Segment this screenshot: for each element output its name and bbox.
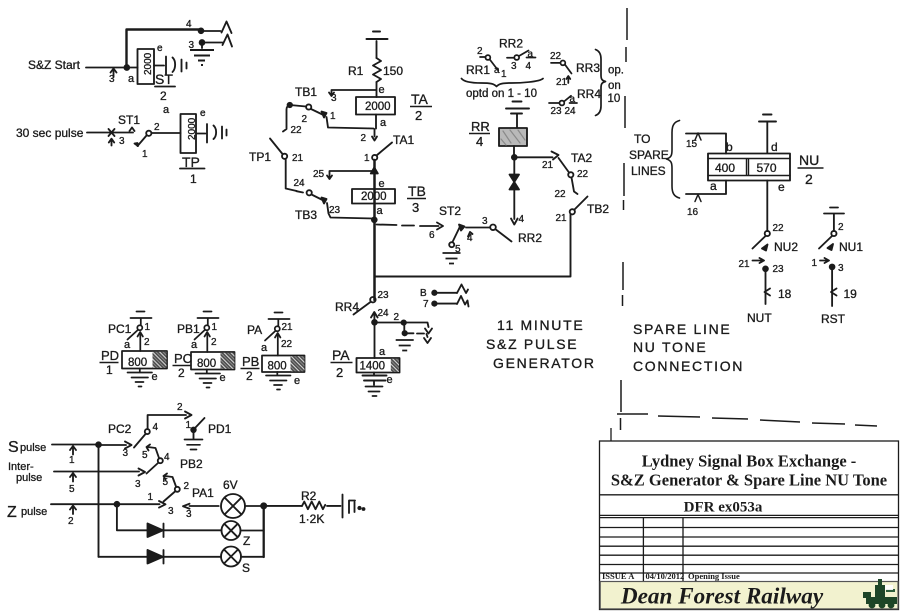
svg-text:a: a bbox=[191, 339, 198, 351]
svg-text:23: 23 bbox=[773, 264, 785, 275]
svg-text:PA1: PA1 bbox=[192, 486, 214, 500]
svg-text:RR: RR bbox=[471, 119, 490, 134]
svg-text:19: 19 bbox=[844, 287, 858, 301]
svg-text:Z: Z bbox=[243, 534, 250, 548]
svg-text:1400: 1400 bbox=[360, 361, 386, 373]
svg-text:3: 3 bbox=[168, 506, 174, 517]
svg-text:a: a bbox=[528, 49, 534, 60]
svg-text:ST: ST bbox=[155, 71, 173, 87]
svg-text:25: 25 bbox=[313, 169, 325, 180]
svg-text:a: a bbox=[377, 205, 384, 217]
svg-text:TB2: TB2 bbox=[587, 202, 609, 216]
svg-text:pulse: pulse bbox=[20, 442, 46, 454]
svg-text:RR4: RR4 bbox=[335, 300, 359, 314]
svg-text:NU2: NU2 bbox=[774, 240, 798, 254]
svg-text:4: 4 bbox=[467, 233, 473, 244]
svg-text:S&Z Start: S&Z Start bbox=[28, 58, 81, 72]
svg-text:PD: PD bbox=[101, 348, 119, 363]
svg-text:2000: 2000 bbox=[143, 52, 154, 75]
svg-text:2000: 2000 bbox=[187, 117, 198, 140]
svg-text:3: 3 bbox=[331, 93, 337, 104]
svg-text:400: 400 bbox=[715, 161, 735, 175]
svg-text:3: 3 bbox=[109, 74, 115, 85]
svg-text:RST: RST bbox=[821, 312, 846, 326]
svg-text:5: 5 bbox=[455, 244, 461, 255]
svg-text:2: 2 bbox=[154, 122, 160, 133]
svg-text:a: a bbox=[494, 65, 500, 76]
svg-text:30 sec pulse: 30 sec pulse bbox=[16, 126, 84, 140]
svg-text:GENERATOR: GENERATOR bbox=[493, 355, 596, 371]
svg-text:23: 23 bbox=[551, 106, 563, 117]
svg-text:RR3: RR3 bbox=[576, 61, 600, 75]
svg-text:2: 2 bbox=[184, 481, 190, 492]
svg-text:e: e bbox=[157, 43, 163, 54]
svg-text:150: 150 bbox=[383, 64, 403, 78]
svg-text:2: 2 bbox=[336, 365, 343, 380]
svg-text:Z: Z bbox=[7, 504, 17, 521]
svg-text:pulse: pulse bbox=[21, 506, 47, 518]
svg-text:2: 2 bbox=[838, 222, 844, 233]
svg-text:3: 3 bbox=[482, 216, 488, 227]
svg-text:e: e bbox=[379, 178, 385, 190]
svg-text:22: 22 bbox=[291, 125, 303, 136]
svg-text:22: 22 bbox=[550, 51, 562, 62]
svg-text:e: e bbox=[152, 371, 158, 383]
svg-text:RR2: RR2 bbox=[518, 231, 542, 245]
svg-text:1: 1 bbox=[501, 69, 507, 80]
svg-text:TB1: TB1 bbox=[295, 85, 317, 99]
svg-text:PD1: PD1 bbox=[208, 422, 232, 436]
svg-text:1·2K: 1·2K bbox=[299, 512, 324, 526]
svg-text:22: 22 bbox=[577, 169, 589, 180]
svg-text:2: 2 bbox=[160, 89, 167, 103]
svg-text:Dean Forest Railway: Dean Forest Railway bbox=[620, 584, 824, 610]
svg-text:TP: TP bbox=[182, 154, 200, 170]
svg-text:2: 2 bbox=[394, 312, 400, 323]
svg-text:1: 1 bbox=[364, 153, 370, 164]
svg-text:TA1: TA1 bbox=[393, 133, 414, 147]
svg-text:TA: TA bbox=[411, 91, 429, 107]
svg-text:4: 4 bbox=[519, 214, 525, 225]
svg-text:3: 3 bbox=[189, 40, 195, 51]
svg-text:NU: NU bbox=[799, 152, 819, 168]
svg-text:NUT: NUT bbox=[747, 311, 772, 325]
svg-text:4: 4 bbox=[164, 452, 170, 463]
svg-text:a: a bbox=[710, 179, 717, 193]
svg-text:RR4: RR4 bbox=[577, 87, 601, 101]
svg-text:optd on 1 - 10: optd on 1 - 10 bbox=[466, 88, 537, 100]
svg-text:2: 2 bbox=[68, 516, 74, 527]
svg-text:22: 22 bbox=[773, 223, 785, 234]
svg-text:24: 24 bbox=[294, 178, 306, 189]
svg-text:TA2: TA2 bbox=[571, 151, 592, 165]
svg-text:5: 5 bbox=[163, 477, 169, 488]
svg-text:Opening Issue: Opening Issue bbox=[688, 571, 740, 581]
svg-text:SPARE: SPARE bbox=[629, 148, 669, 162]
svg-text:04/10/2012: 04/10/2012 bbox=[646, 571, 685, 581]
svg-text:16: 16 bbox=[687, 207, 699, 218]
svg-text:S: S bbox=[242, 561, 250, 575]
svg-text:ST2: ST2 bbox=[439, 204, 461, 218]
svg-text:S&Z Generator & Spare Line NU: S&Z Generator & Spare Line NU Tone bbox=[611, 471, 887, 490]
svg-text:11 MINUTE: 11 MINUTE bbox=[497, 317, 584, 333]
svg-text:a: a bbox=[261, 342, 268, 354]
svg-text:5: 5 bbox=[69, 484, 75, 495]
svg-text:4: 4 bbox=[476, 134, 483, 149]
svg-text:3: 3 bbox=[838, 263, 844, 274]
svg-text:RR1: RR1 bbox=[466, 63, 490, 77]
svg-text:PC2: PC2 bbox=[108, 422, 132, 436]
svg-text:PB1: PB1 bbox=[177, 322, 200, 336]
svg-text:2000: 2000 bbox=[365, 101, 391, 113]
svg-text:4: 4 bbox=[186, 19, 192, 30]
svg-text:2: 2 bbox=[211, 337, 217, 348]
svg-text:4: 4 bbox=[526, 61, 532, 72]
svg-text:pulse: pulse bbox=[16, 472, 42, 484]
svg-text:1: 1 bbox=[190, 172, 197, 186]
svg-text:B: B bbox=[420, 288, 427, 299]
svg-text:6V: 6V bbox=[223, 478, 238, 492]
svg-text:NU TONE: NU TONE bbox=[633, 339, 707, 355]
svg-text:ISSUE A: ISSUE A bbox=[602, 571, 635, 581]
svg-text:6: 6 bbox=[429, 230, 435, 241]
svg-text:TO: TO bbox=[634, 132, 650, 146]
svg-text:2: 2 bbox=[302, 114, 308, 125]
svg-text:S: S bbox=[8, 439, 19, 456]
svg-text:2: 2 bbox=[144, 337, 150, 348]
svg-text:e: e bbox=[220, 372, 226, 384]
svg-text:TB3: TB3 bbox=[295, 208, 317, 222]
svg-text:18: 18 bbox=[778, 287, 792, 301]
svg-text:21: 21 bbox=[282, 322, 294, 333]
svg-text:1: 1 bbox=[142, 149, 148, 160]
svg-text:S&Z PULSE: S&Z PULSE bbox=[486, 336, 578, 352]
svg-text:800: 800 bbox=[128, 357, 147, 369]
svg-text:PB: PB bbox=[242, 354, 259, 369]
svg-text:PC1: PC1 bbox=[108, 322, 132, 336]
svg-text:1: 1 bbox=[212, 322, 218, 333]
svg-text:5: 5 bbox=[142, 450, 148, 461]
svg-text:21: 21 bbox=[739, 259, 751, 270]
svg-text:2: 2 bbox=[361, 133, 367, 144]
svg-text:800: 800 bbox=[268, 361, 287, 373]
svg-text:22: 22 bbox=[555, 189, 567, 200]
svg-text:LINES: LINES bbox=[631, 164, 666, 178]
svg-text:800: 800 bbox=[197, 358, 216, 370]
svg-text:2: 2 bbox=[177, 402, 183, 413]
svg-text:1: 1 bbox=[69, 455, 75, 466]
svg-text:4: 4 bbox=[153, 422, 159, 433]
svg-text:21: 21 bbox=[542, 160, 554, 171]
svg-text:CONNECTION: CONNECTION bbox=[633, 358, 744, 374]
svg-text:24: 24 bbox=[378, 308, 390, 319]
svg-text:1: 1 bbox=[330, 111, 336, 122]
svg-text:on: on bbox=[608, 80, 621, 92]
svg-text:R2: R2 bbox=[301, 489, 317, 503]
svg-text:d: d bbox=[771, 140, 778, 154]
svg-text:2: 2 bbox=[805, 171, 813, 187]
svg-text:a: a bbox=[163, 104, 170, 116]
svg-text:NU1: NU1 bbox=[839, 240, 863, 254]
svg-text:15: 15 bbox=[686, 139, 698, 150]
svg-text:2: 2 bbox=[477, 46, 483, 57]
svg-text:e: e bbox=[778, 180, 785, 194]
svg-text:a: a bbox=[380, 117, 387, 129]
svg-text:a: a bbox=[570, 94, 576, 105]
svg-text:ST1: ST1 bbox=[118, 113, 140, 127]
svg-text:RR2: RR2 bbox=[499, 37, 523, 51]
svg-text:R1: R1 bbox=[348, 64, 364, 78]
svg-text:21: 21 bbox=[556, 77, 568, 88]
svg-text:PB2: PB2 bbox=[180, 457, 203, 471]
svg-text:7: 7 bbox=[423, 299, 429, 310]
svg-text:PC: PC bbox=[174, 351, 192, 366]
svg-text:570: 570 bbox=[757, 161, 777, 175]
svg-text:22: 22 bbox=[281, 339, 293, 350]
svg-text:e: e bbox=[379, 84, 385, 96]
svg-text:e: e bbox=[387, 374, 393, 386]
svg-text:Lydney Signal Box Exchange -: Lydney Signal Box Exchange - bbox=[642, 452, 857, 471]
svg-text:3: 3 bbox=[186, 509, 192, 520]
svg-text:SPARE LINE: SPARE LINE bbox=[633, 321, 731, 337]
svg-text:24: 24 bbox=[565, 106, 577, 117]
svg-text:1: 1 bbox=[106, 363, 113, 377]
svg-text:3: 3 bbox=[119, 136, 125, 147]
svg-text:PA: PA bbox=[332, 347, 350, 363]
svg-text:3: 3 bbox=[135, 479, 141, 490]
svg-text:2000: 2000 bbox=[361, 191, 387, 203]
svg-text:DFR ex053a: DFR ex053a bbox=[684, 500, 763, 516]
svg-text:2: 2 bbox=[178, 366, 185, 380]
svg-text:3: 3 bbox=[123, 448, 129, 459]
svg-text:3: 3 bbox=[511, 61, 517, 72]
svg-text:b: b bbox=[726, 140, 733, 154]
svg-text:a: a bbox=[128, 73, 135, 85]
svg-text:e: e bbox=[294, 375, 300, 387]
svg-text:10: 10 bbox=[608, 93, 621, 105]
svg-text:3: 3 bbox=[412, 200, 419, 215]
svg-text:2: 2 bbox=[246, 369, 253, 383]
svg-text:TB: TB bbox=[408, 183, 426, 199]
svg-text:a: a bbox=[124, 339, 131, 351]
svg-text:1: 1 bbox=[186, 420, 192, 431]
svg-text:23: 23 bbox=[378, 290, 390, 301]
svg-text:1: 1 bbox=[812, 258, 818, 269]
svg-text:2: 2 bbox=[415, 108, 422, 123]
svg-text:PA: PA bbox=[247, 323, 262, 337]
svg-text:21: 21 bbox=[556, 213, 568, 224]
svg-text:a: a bbox=[379, 346, 386, 358]
svg-text:TP1: TP1 bbox=[249, 150, 271, 164]
svg-text:1: 1 bbox=[148, 492, 154, 503]
svg-text:23: 23 bbox=[329, 205, 341, 216]
svg-text:21: 21 bbox=[292, 153, 304, 164]
svg-text:op.: op. bbox=[608, 65, 624, 77]
svg-text:e: e bbox=[200, 108, 206, 119]
svg-text:1: 1 bbox=[145, 322, 151, 333]
